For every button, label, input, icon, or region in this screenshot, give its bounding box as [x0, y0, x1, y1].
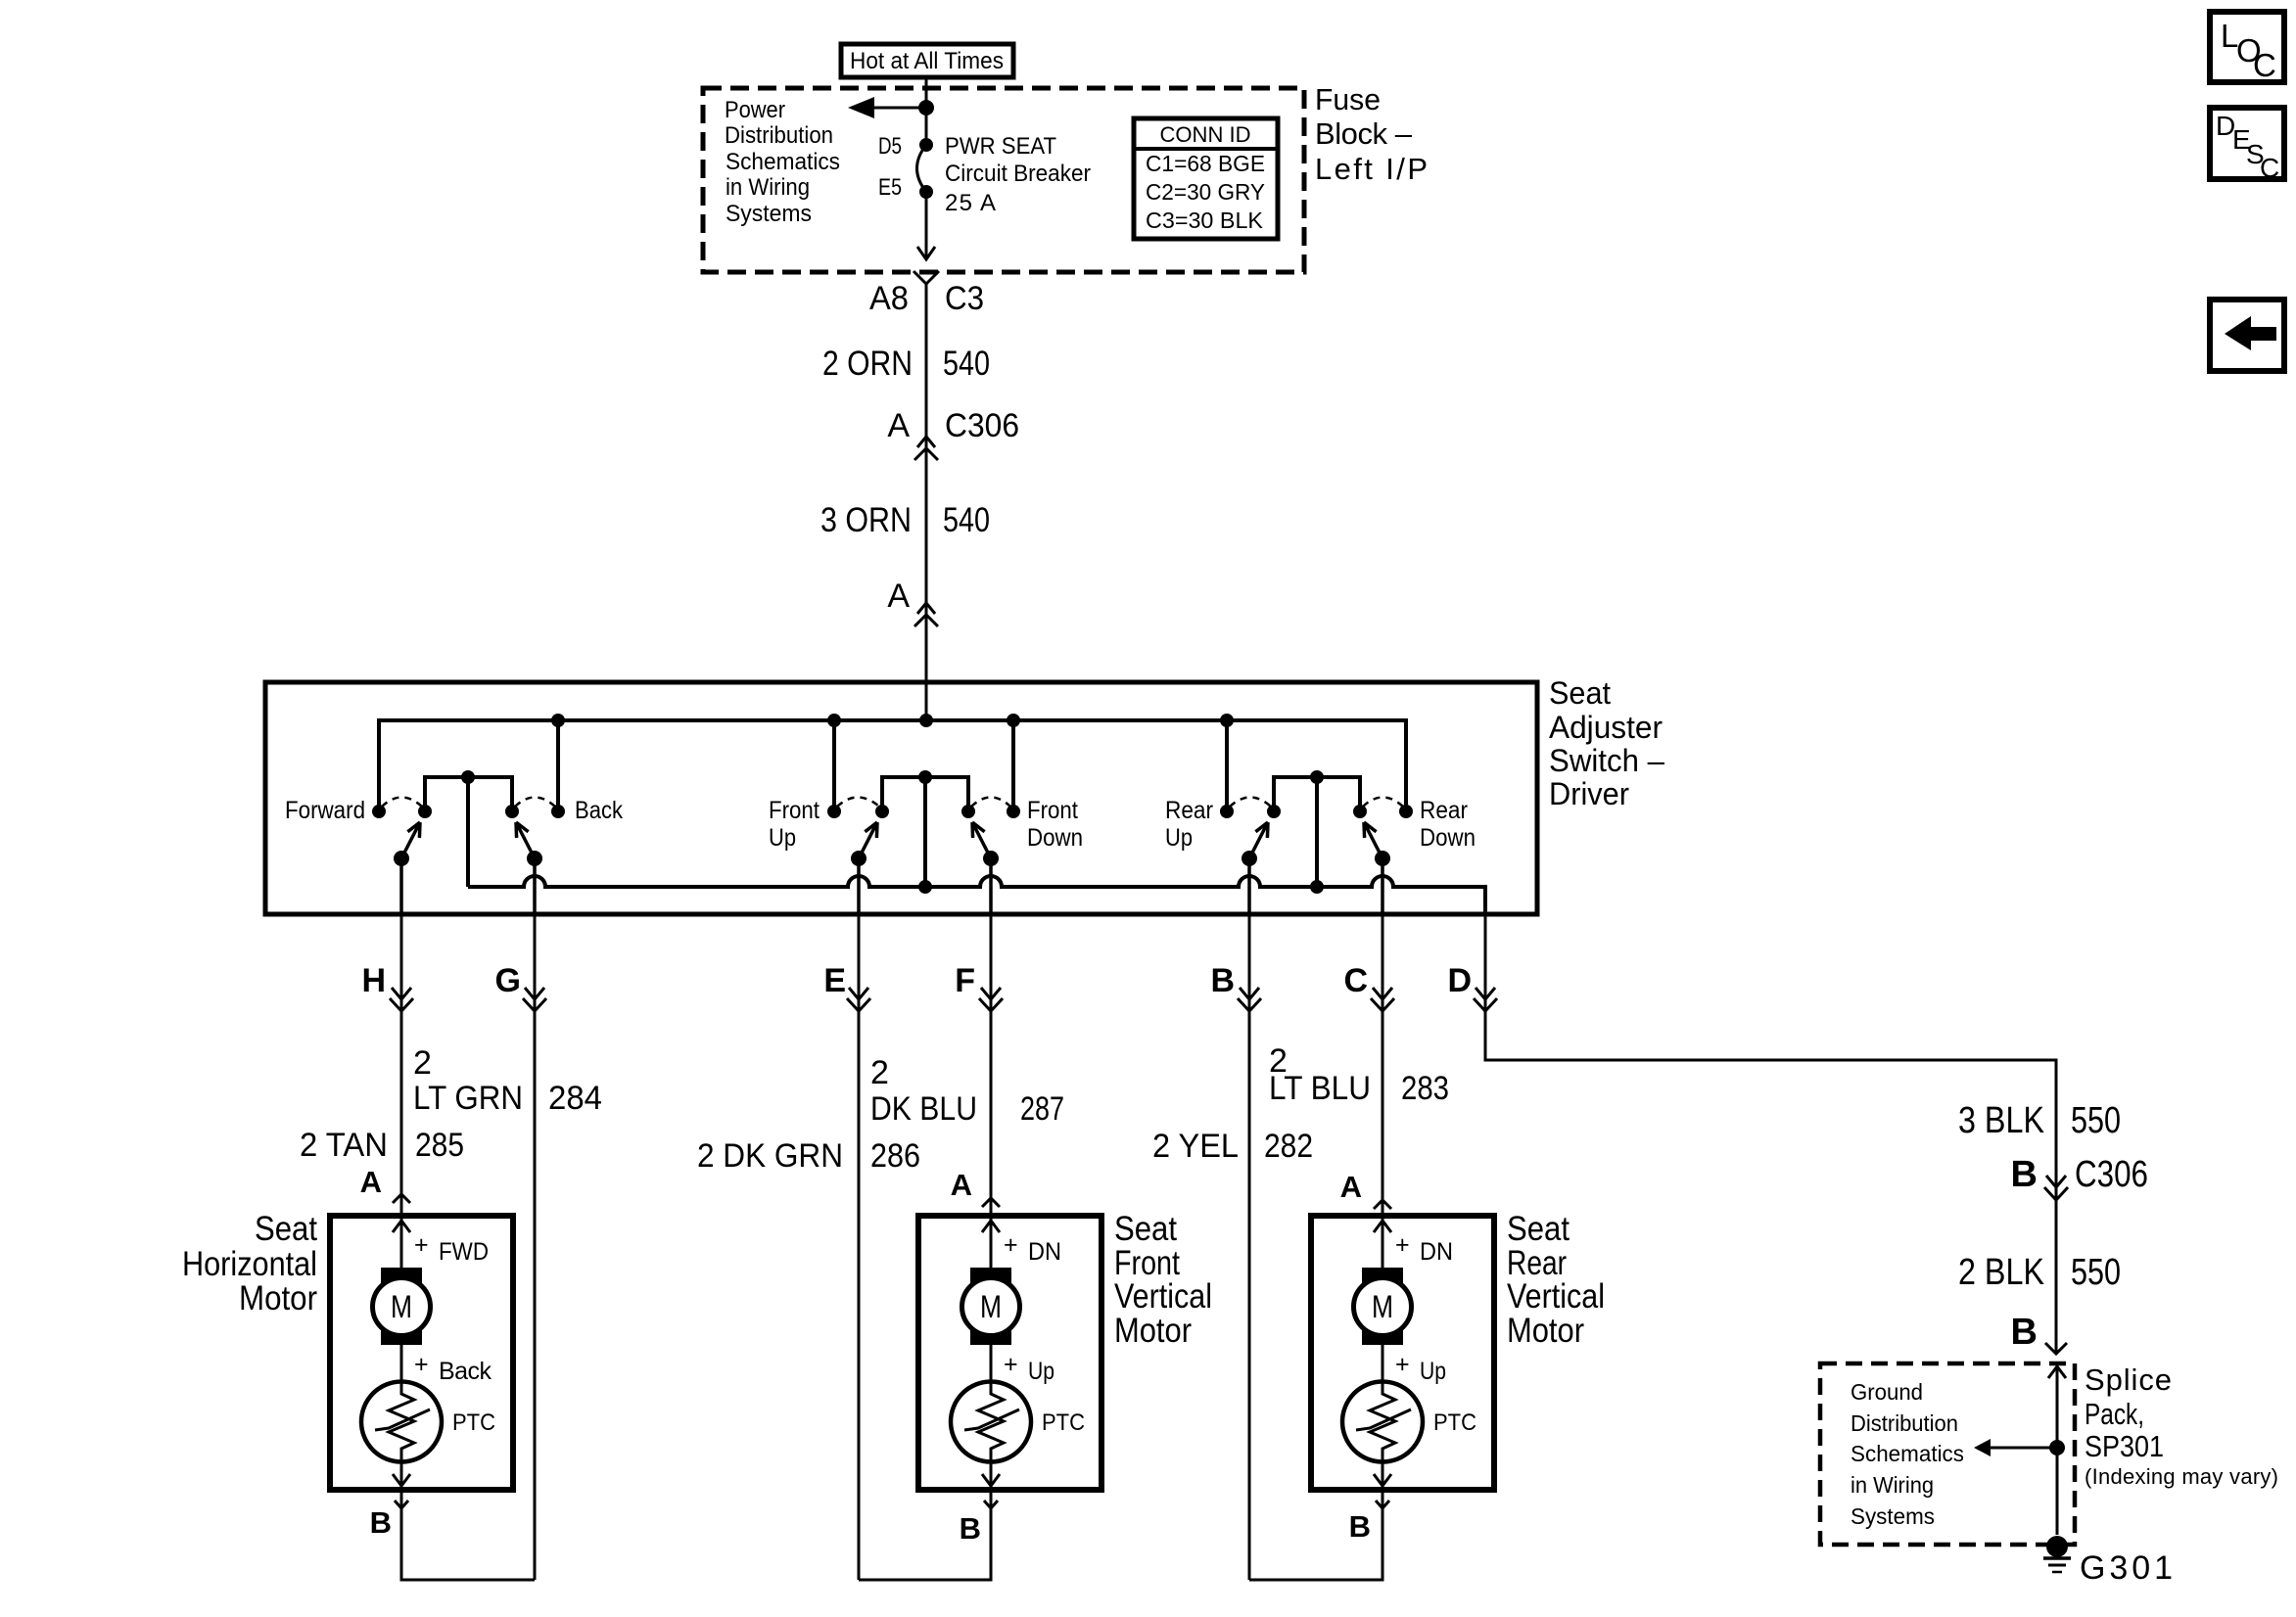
- svg-text:Up: Up: [769, 824, 796, 852]
- svg-text:Motor: Motor: [1114, 1312, 1192, 1350]
- svg-text:Systems: Systems: [726, 201, 812, 227]
- svg-text:LT GRN: LT GRN: [413, 1080, 523, 1117]
- svg-text:540: 540: [943, 345, 990, 383]
- svg-text:Front: Front: [1027, 797, 1078, 824]
- svg-text:+: +: [1395, 1351, 1410, 1378]
- PTC thermistor of motor M3: [1342, 1382, 1476, 1487]
- node: fixed and armature contact dots: [372, 805, 1413, 818]
- svg-text:Motor: Motor: [239, 1279, 317, 1317]
- terminal letters H G E F B C D: [361, 962, 1472, 999]
- svg-text:PTC: PTC: [1433, 1409, 1476, 1436]
- svg-text:Hot at All Times: Hot at All Times: [850, 48, 1004, 74]
- wire: pivot drops to terminals: [401, 858, 1382, 914]
- svg-text:Power: Power: [725, 97, 785, 123]
- svg-text:Vertical: Vertical: [1507, 1277, 1605, 1316]
- svg-text:+: +: [414, 1351, 429, 1378]
- svg-text:Splice: Splice: [2085, 1363, 2172, 1397]
- svg-text:Ground: Ground: [1851, 1379, 1923, 1405]
- svg-text:Adjuster: Adjuster: [1549, 710, 1663, 745]
- svg-text:3 ORN: 3 ORN: [820, 501, 912, 539]
- svg-text:Horizontal: Horizontal: [182, 1245, 317, 1283]
- icon box: back arrow: [2210, 300, 2284, 371]
- seat adjuster switch box: [265, 682, 1537, 914]
- svg-text:B: B: [2011, 1154, 2038, 1195]
- icon box: DESC: [2210, 108, 2284, 183]
- svg-text:540: 540: [943, 501, 990, 539]
- wire: motor M1 terminal B return loop: [370, 1490, 535, 1580]
- switch S3 rear vertical: armature bridge: [1274, 770, 1360, 887]
- svg-text:A: A: [887, 577, 910, 615]
- svg-text:+: +: [1004, 1351, 1018, 1378]
- node: junction to power distribution arrow: [918, 100, 934, 115]
- svg-text:287: 287: [1020, 1090, 1064, 1128]
- fuse block dashed box: [703, 88, 1304, 272]
- svg-text:H: H: [361, 962, 386, 999]
- svg-text:B: B: [1210, 962, 1235, 999]
- svg-text:Up: Up: [1028, 1358, 1054, 1385]
- svg-text:E5: E5: [878, 174, 902, 201]
- wire: motor M2 terminal B return loop: [859, 1490, 998, 1580]
- wire: switch supply bus: [379, 720, 1406, 811]
- svg-text:Distribution: Distribution: [725, 122, 833, 149]
- svg-text:M: M: [1372, 1289, 1393, 1324]
- svg-text:282: 282: [1264, 1128, 1313, 1165]
- seat rear vertical motor box: [1311, 1210, 1605, 1490]
- text: Seat Adjuster Switch - Driver: [1549, 675, 1664, 811]
- svg-text:C: C: [1343, 962, 1368, 999]
- svg-text:Up: Up: [1420, 1358, 1446, 1385]
- svg-text:2: 2: [870, 1054, 889, 1091]
- svg-text:C3: C3: [945, 280, 984, 317]
- connector chevrons on terminal wires: [390, 988, 1497, 1011]
- svg-text:DK BLU: DK BLU: [870, 1090, 977, 1128]
- node: bus feed junction: [919, 714, 933, 727]
- connector C3 pin A8 (fuse block output): [869, 271, 984, 317]
- svg-text:2 BLK: 2 BLK: [1958, 1252, 2044, 1293]
- svg-text:DN: DN: [1028, 1238, 1061, 1266]
- text: Power Distribution Schematics in Wiring Systems: [725, 97, 840, 227]
- wire: hot feed from Hot at All Times into fuse block: [925, 77, 928, 145]
- svg-text:SP301: SP301: [2085, 1429, 2164, 1463]
- svg-text:LT BLU: LT BLU: [1269, 1070, 1371, 1107]
- svg-text:M: M: [391, 1289, 412, 1324]
- svg-text:Seat: Seat: [1507, 1210, 1570, 1248]
- wire: switch return bus with hops to terminal D: [468, 876, 1485, 914]
- svg-text:Systems: Systems: [1851, 1503, 1935, 1529]
- svg-text:M: M: [980, 1289, 1002, 1324]
- svg-text:Front: Front: [769, 797, 820, 824]
- svg-text:3 BLK: 3 BLK: [1958, 1100, 2044, 1141]
- svg-text:D: D: [1447, 962, 1472, 999]
- svg-text:2 TAN: 2 TAN: [300, 1127, 388, 1164]
- svg-text:B: B: [960, 1511, 981, 1546]
- PTC thermistor of motor M2: [951, 1382, 1085, 1487]
- svg-text:25 A: 25 A: [945, 190, 996, 216]
- wire: Rear Up contact stub: [1220, 714, 1234, 811]
- switch S1 horizontal: armature bridge: [425, 770, 512, 887]
- CONN ID table: [1134, 118, 1278, 239]
- svg-text:Left I/P: Left I/P: [1315, 152, 1428, 186]
- label box: Hot at All Times: [841, 44, 1013, 77]
- svg-text:2 ORN: 2 ORN: [822, 345, 913, 383]
- svg-text:550: 550: [2071, 1100, 2121, 1141]
- connector pin A into seat adjuster switch: [887, 577, 938, 626]
- wire label: 2 BLK 550: [1958, 1252, 2121, 1293]
- svg-text:Back: Back: [439, 1358, 492, 1385]
- svg-text:Seat: Seat: [255, 1210, 317, 1248]
- svg-text:G: G: [495, 962, 521, 999]
- svg-text:C: C: [2253, 47, 2276, 83]
- svg-text:A8: A8: [869, 280, 909, 317]
- svg-text:Seat: Seat: [1114, 1210, 1177, 1248]
- svg-text:+: +: [414, 1231, 429, 1259]
- motor M3 armature M symbol: [1354, 1219, 1454, 1487]
- svg-text:CONN ID: CONN ID: [1160, 122, 1251, 147]
- wire: arrow to power distribution schematics: [848, 97, 926, 118]
- seat front vertical motor box: [918, 1210, 1212, 1490]
- wire: arrow to ground distribution schematics: [1974, 1439, 2057, 1456]
- wire G: 2 LT GRN 284 return: [413, 914, 602, 1580]
- switch S2 front vertical: armature bridge: [882, 770, 968, 887]
- wire H: 2 TAN 285 to horizontal motor: [300, 914, 464, 1216]
- svg-text:285: 285: [415, 1127, 464, 1164]
- svg-text:Up: Up: [1165, 824, 1193, 852]
- connector splice pack pin B: [2011, 1312, 2067, 1354]
- svg-text:A: A: [951, 1168, 972, 1202]
- svg-text:B: B: [370, 1505, 392, 1540]
- motor M2 armature M symbol: [962, 1219, 1062, 1487]
- svg-text:DN: DN: [1420, 1238, 1453, 1266]
- svg-text:in Wiring: in Wiring: [726, 174, 810, 201]
- wire D: 3 BLK 550 ground lead: [1485, 914, 2121, 1354]
- svg-text:C306: C306: [945, 407, 1019, 444]
- svg-text:F: F: [955, 962, 975, 999]
- seat horizontal motor box: [182, 1210, 513, 1490]
- svg-text:283: 283: [1401, 1070, 1449, 1107]
- svg-text:+: +: [1004, 1231, 1018, 1259]
- svg-text:C3=30 BLK: C3=30 BLK: [1146, 208, 1264, 233]
- svg-text:Forward: Forward: [285, 797, 365, 824]
- connector C306 pin A: [887, 407, 1019, 460]
- text: Fuse Block - Left I/P: [1315, 82, 1428, 186]
- svg-text:Distribution: Distribution: [1851, 1410, 1958, 1436]
- svg-text:284: 284: [548, 1080, 602, 1117]
- svg-text:A: A: [887, 407, 910, 444]
- svg-text:Rear: Rear: [1165, 797, 1213, 824]
- icon box: LOC: [2210, 12, 2284, 83]
- svg-text:Down: Down: [1420, 824, 1476, 852]
- wire F: 2 DK BLU 287 to front vertical motor: [870, 914, 1064, 1216]
- ground distribution dashed box: [1820, 1363, 2075, 1545]
- svg-text:Down: Down: [1027, 824, 1083, 852]
- svg-text:Schematics: Schematics: [1851, 1441, 1964, 1466]
- svg-text:in Wiring: in Wiring: [1851, 1472, 1934, 1498]
- svg-text:Rear: Rear: [1420, 797, 1468, 824]
- svg-text:(Indexing may vary): (Indexing may vary): [2085, 1464, 2278, 1489]
- wire: splice pack lead with up arrow: [2048, 1366, 2066, 1535]
- svg-text:PTC: PTC: [452, 1409, 495, 1436]
- svg-text:550: 550: [2071, 1252, 2121, 1293]
- svg-text:Switch –: Switch –: [1549, 743, 1664, 778]
- wire C: 2 LT BLU 283 to rear vertical motor: [1269, 914, 1449, 1216]
- svg-text:E: E: [823, 962, 846, 999]
- svg-text:Fuse: Fuse: [1315, 82, 1381, 116]
- svg-text:PTC: PTC: [1042, 1409, 1085, 1436]
- connector C306 pin B: [2011, 1154, 2148, 1200]
- wire: Back contact stub: [551, 714, 565, 811]
- wire: Front Down contact stub: [1007, 714, 1020, 811]
- svg-text:286: 286: [870, 1137, 920, 1175]
- svg-text:Vertical: Vertical: [1114, 1277, 1212, 1316]
- svg-text:2 DK GRN: 2 DK GRN: [697, 1137, 843, 1175]
- svg-text:D5: D5: [878, 133, 902, 160]
- svg-text:2 YEL: 2 YEL: [1152, 1128, 1239, 1165]
- svg-text:C2=30 GRY: C2=30 GRY: [1146, 179, 1265, 205]
- svg-text:2: 2: [413, 1044, 432, 1082]
- svg-text:B: B: [2011, 1312, 2038, 1353]
- svg-text:PWR SEAT: PWR SEAT: [945, 133, 1056, 160]
- switch movable contacts: pivots and arrows: [394, 822, 1390, 866]
- wire: Front Up contact stub: [827, 714, 841, 811]
- svg-text:Schematics: Schematics: [726, 149, 840, 175]
- svg-text:A: A: [1340, 1170, 1362, 1204]
- wire B: 2 YEL 282 return: [1152, 914, 1313, 1580]
- motor M1 armature M symbol: [373, 1219, 492, 1487]
- node: splice junction SP301: [2049, 1440, 2065, 1455]
- svg-text:FWD: FWD: [439, 1238, 489, 1266]
- text: Ground Distribution Schematics in Wiring Systems: [1851, 1379, 1964, 1529]
- switch position labels: [285, 797, 1476, 852]
- node: return bus junctions: [918, 880, 1324, 894]
- svg-text:G301: G301: [2080, 1549, 2173, 1587]
- text: Splice Pack SP301: [2085, 1363, 2278, 1489]
- svg-text:C: C: [2260, 153, 2279, 183]
- svg-text:Driver: Driver: [1549, 776, 1629, 811]
- svg-text:Back: Back: [575, 797, 623, 824]
- wire label: 3 ORN 540: [820, 501, 990, 539]
- wire: motor M3 terminal B return loop: [1249, 1490, 1389, 1580]
- ground G301: [2043, 1536, 2173, 1587]
- svg-text:+: +: [1395, 1231, 1410, 1259]
- svg-text:Seat: Seat: [1549, 675, 1611, 711]
- svg-text:A: A: [360, 1165, 382, 1199]
- PTC thermistor of motor M1: [361, 1382, 495, 1487]
- wire: 2 ORN 540 feed down to C306: [822, 284, 990, 720]
- circuit breaker CB: PWR SEAT 25 A pins D5 E5: [878, 133, 1091, 216]
- svg-text:B: B: [1349, 1509, 1371, 1544]
- svg-text:Motor: Motor: [1507, 1312, 1584, 1350]
- dashed coupling arcs: [382, 798, 1403, 808]
- svg-text:C1=68 BGE: C1=68 BGE: [1146, 151, 1265, 176]
- wire E: 2 DK GRN 286 return: [697, 914, 920, 1580]
- svg-text:Block –: Block –: [1315, 116, 1413, 151]
- wire: breaker output with down arrow: [917, 192, 935, 259]
- svg-text:Pack,: Pack,: [2085, 1397, 2144, 1431]
- svg-text:C306: C306: [2075, 1154, 2148, 1195]
- svg-text:Circuit Breaker: Circuit Breaker: [945, 161, 1091, 187]
